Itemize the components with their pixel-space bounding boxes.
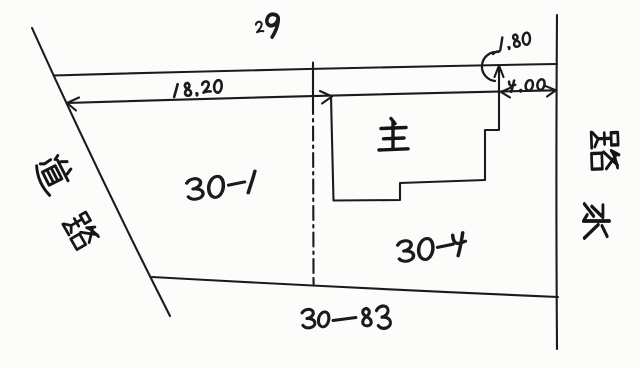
arrowhead right (at waterway line) bbox=[545, 86, 556, 97]
leader arc for 1.80 bbox=[482, 51, 500, 81]
building outline (stepped polygon) bbox=[331, 92, 499, 201]
parcel divider solid bottom tail bbox=[312, 278, 314, 284]
dimension line 18.20 / 4.00 bbox=[67, 90, 556, 103]
dimension text 4.00 bbox=[509, 80, 516, 92]
dimension text 18.20 bbox=[173, 84, 179, 97]
south boundary line (bottom) bbox=[152, 277, 558, 297]
lot number 29 (top) bbox=[256, 21, 264, 32]
waterway boundary line (right vertical) bbox=[555, 15, 558, 349]
kanji 水 (waterway label, rotated) bbox=[583, 204, 609, 238]
parcel divider dashed part bbox=[312, 100, 315, 278]
arrowhead right (at building left edge) bbox=[320, 91, 332, 104]
arrowhead left (4.00 start) bbox=[501, 87, 512, 98]
arrowhead up (1.80 at boundary) bbox=[495, 66, 504, 78]
parcel divider (dash-dot vertical) solid top part bbox=[312, 63, 314, 101]
parcel label 30-1 bbox=[186, 178, 203, 200]
dimension text 1.80 bbox=[498, 37, 505, 50]
parcel label 30-4 bbox=[397, 240, 414, 262]
kanji 路 (waterway label, rotated) bbox=[591, 131, 620, 169]
extension line 1.80 (building edge up to boundary) bbox=[498, 66, 500, 93]
kanji 路 (road label left, rotated) bbox=[62, 211, 100, 250]
arrowhead left (at road) bbox=[67, 98, 79, 111]
north boundary line (top) bbox=[54, 64, 557, 76]
kanji 主 (main building) bbox=[379, 119, 408, 151]
road line (diagonal, left) bbox=[32, 28, 170, 316]
parcel label 30-83 bbox=[302, 309, 315, 328]
kanji 道 (road label, rotated) bbox=[33, 153, 77, 197]
